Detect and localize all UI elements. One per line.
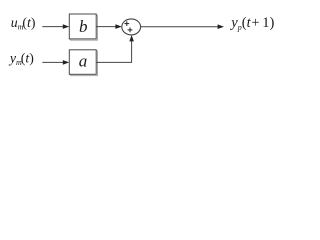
svg-text:yp(t+1): yp(t+1) xyxy=(229,15,274,32)
svg-text:ym(t): ym(t) xyxy=(8,50,34,67)
svg-text:um(t): um(t) xyxy=(11,15,36,32)
svg-text:b: b xyxy=(79,17,88,36)
svg-text:a: a xyxy=(79,51,88,70)
